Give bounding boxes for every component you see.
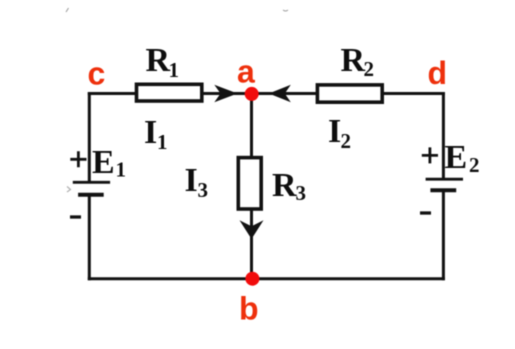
svg-text:1: 1 (157, 130, 168, 154)
svg-text:b: b (239, 291, 259, 327)
svg-text:E: E (92, 144, 115, 181)
scan artifact: tiny chevron left of E1 (67, 187, 71, 193)
svg-text:2: 2 (364, 57, 375, 81)
wire: R3 bottom lead to node b (250, 209, 253, 279)
battery E1 plus sign (70, 151, 86, 167)
arrow I3 (current down through R3) (240, 220, 264, 239)
battery E2 negative short plate (430, 188, 456, 192)
wire: top-left horizontal (c to R1) (88, 92, 137, 95)
node b (junction dot) (245, 272, 259, 286)
wire: top-right horizontal (R2 to d) (382, 92, 445, 95)
node a (junction dot) (245, 87, 259, 101)
svg-text:I: I (328, 113, 341, 150)
battery E1 positive long plate (73, 181, 110, 184)
battery E1 minus sign (70, 215, 81, 218)
svg-text:E: E (445, 139, 468, 176)
wire: right vertical lower (E2 - plate down to bottom-right corner) (442, 192, 445, 281)
arrow I1 (current into node a, pointing right) (214, 85, 237, 102)
svg-text:1: 1 (116, 158, 127, 182)
svg-text:R: R (146, 42, 171, 79)
wire: bottom horizontal (b rail) (88, 277, 445, 280)
svg-text:I: I (144, 114, 157, 151)
scan artifact: tiny tilde mark top-middle (283, 10, 288, 11)
svg-text:c: c (88, 56, 106, 92)
svg-text:d: d (428, 55, 448, 91)
svg-text:R: R (341, 42, 366, 79)
svg-text:a: a (237, 54, 255, 90)
svg-text:R: R (272, 167, 297, 204)
resistor R2 (317, 85, 382, 102)
svg-text:1: 1 (169, 58, 180, 82)
svg-text:2: 2 (469, 153, 480, 177)
wire: node a to R2 left lead (252, 92, 319, 95)
scan artifact: tiny accent mark top-left (66, 8, 69, 12)
arrow I2 (current into node a, pointing left) (269, 85, 291, 102)
wire: left vertical lower (E1 - plate down to bottom-left corner) (88, 196, 91, 280)
resistor R3 (238, 158, 261, 209)
battery E2 plus sign (422, 147, 438, 163)
wire: middle vertical node a to R3 (250, 94, 253, 158)
battery E1 negative short plate (78, 193, 104, 197)
battery E2 positive long plate (426, 178, 463, 181)
svg-text:I: I (185, 162, 198, 199)
svg-text:2: 2 (341, 129, 352, 153)
svg-text:3: 3 (198, 178, 209, 202)
svg-text:3: 3 (296, 181, 307, 205)
wire: right vertical upper (d down to E2 + plate) (442, 92, 445, 178)
resistor R1 (137, 84, 202, 101)
wire: R1 right lead to node a (201, 92, 252, 95)
wire: left vertical (c down to E1 + plate) (88, 92, 91, 181)
battery E2 minus sign (420, 211, 431, 214)
